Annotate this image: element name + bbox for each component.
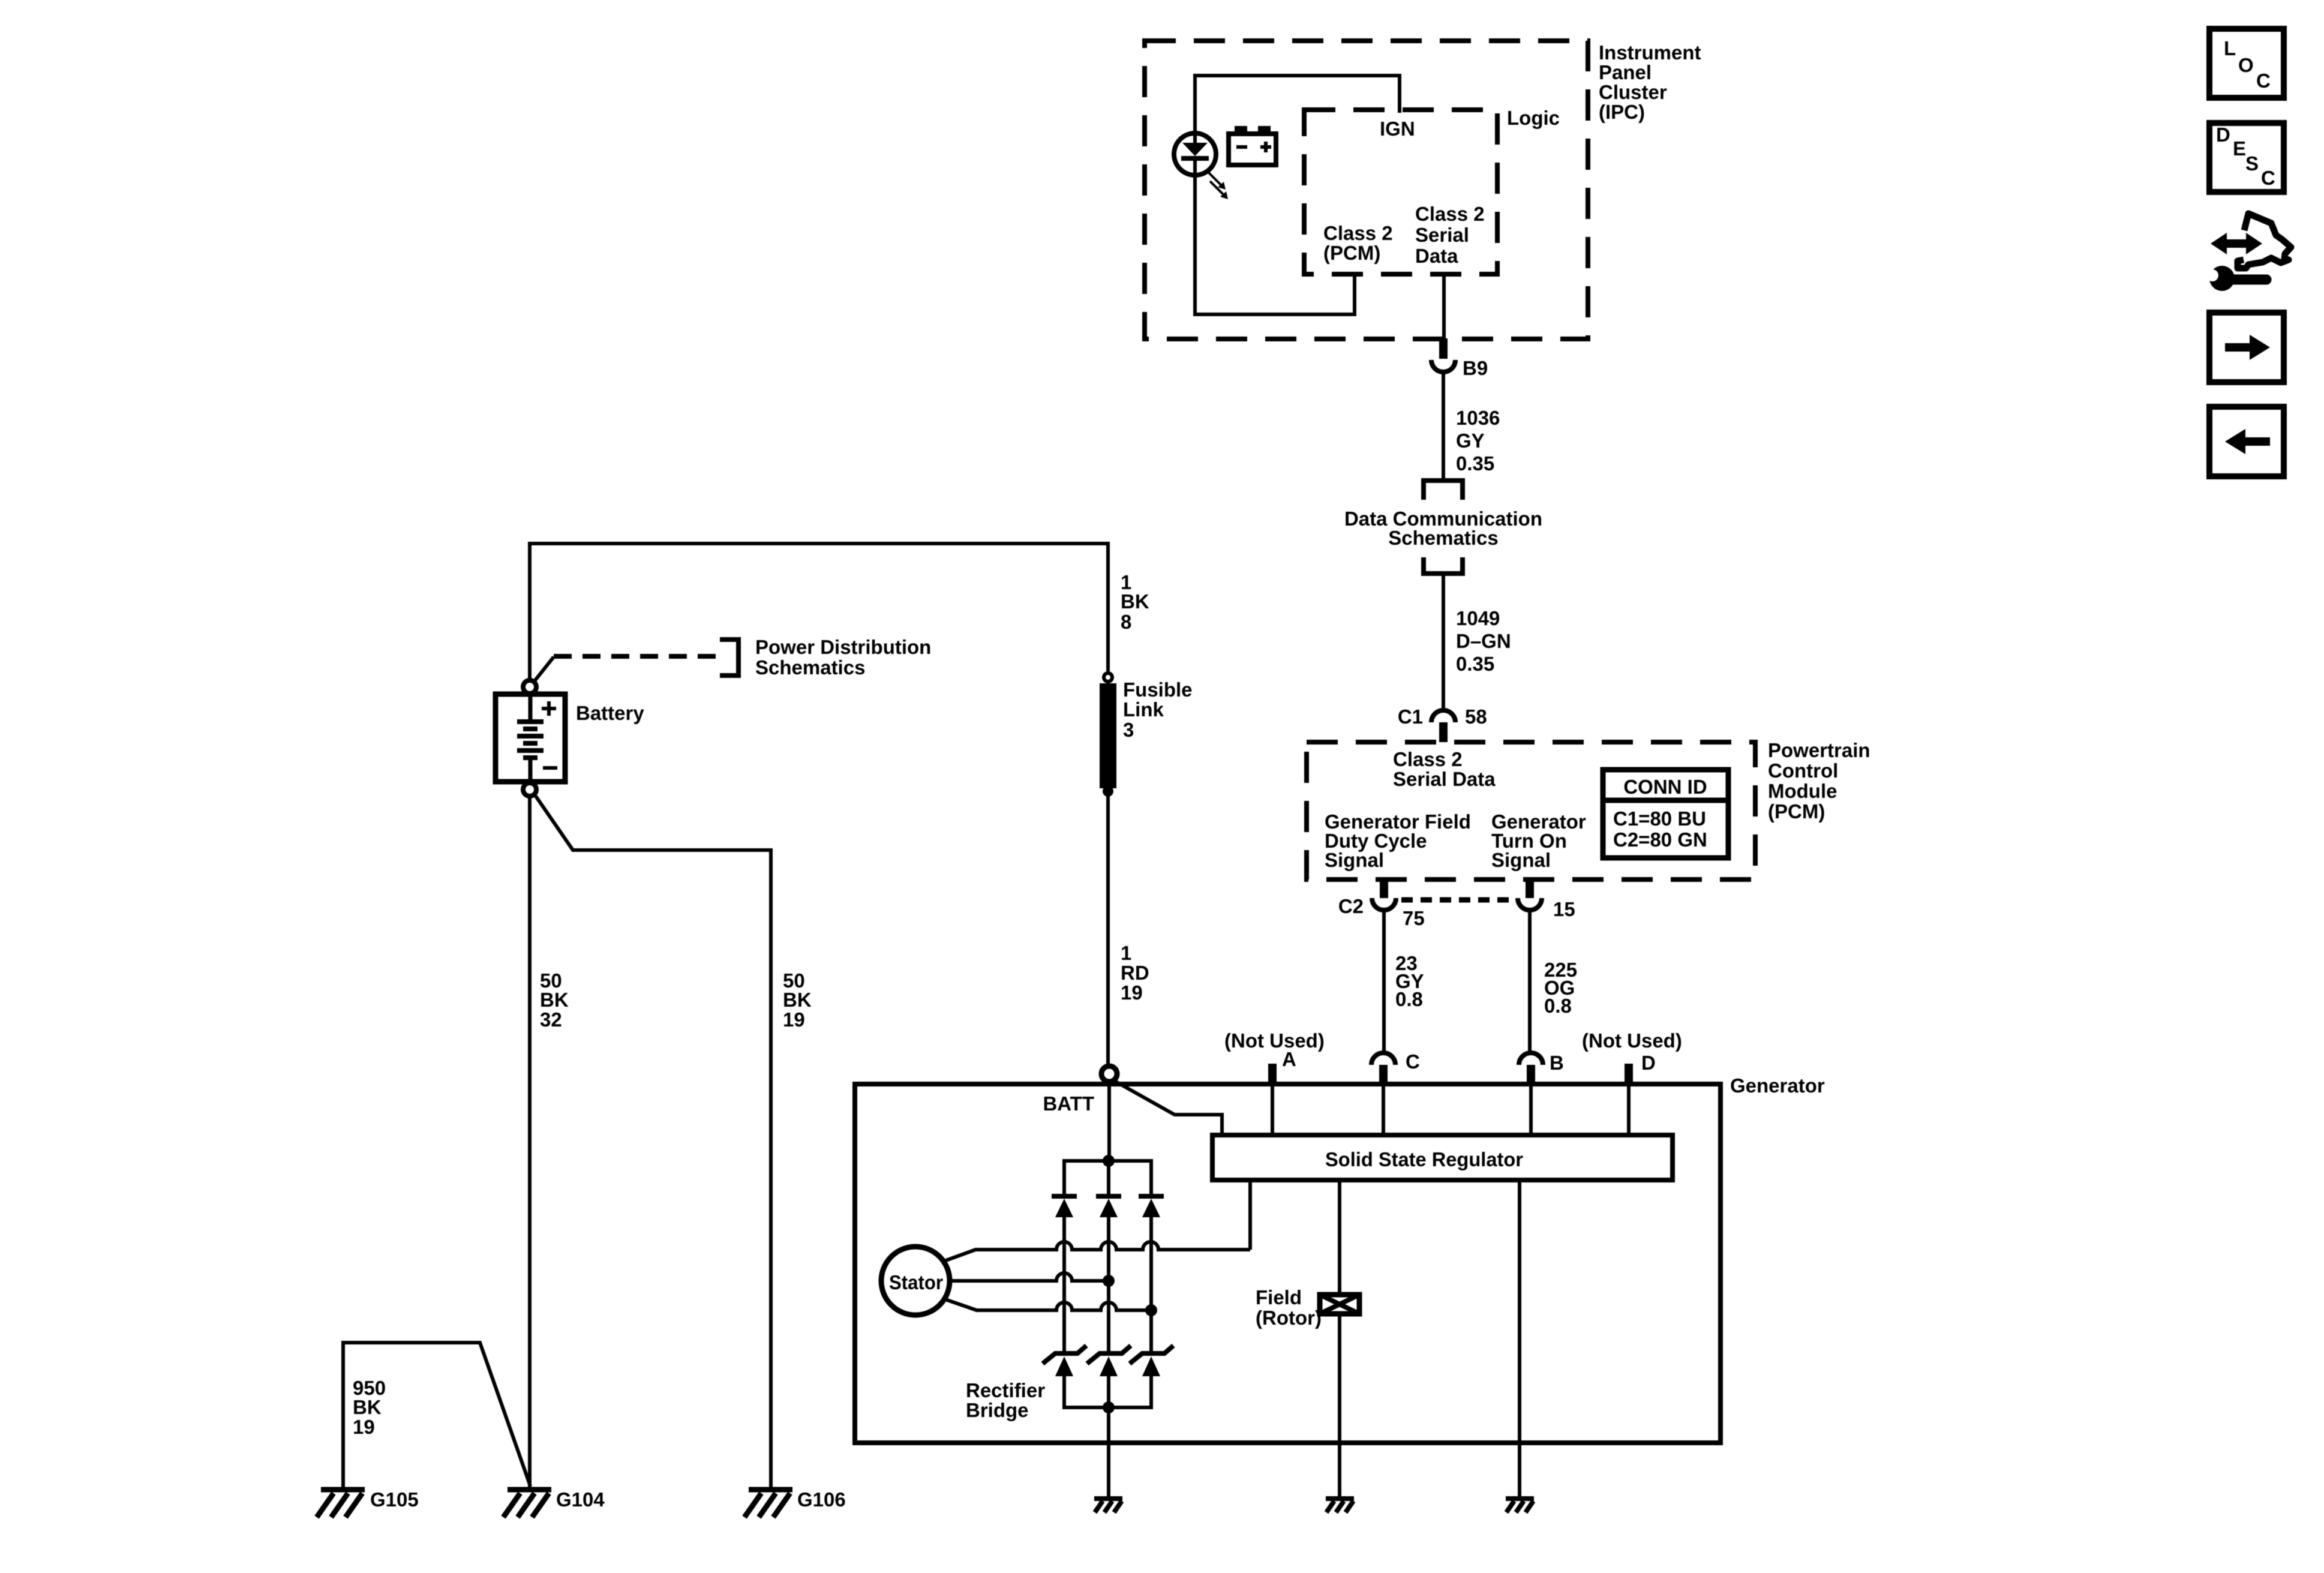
svg-text:0.8: 0.8 [1544,995,1572,1017]
label 225 OG 0.8 [1544,959,1577,1017]
module box PCM (Powertrain Control Module) [1307,742,1755,879]
ground G105 [317,1490,365,1517]
icon data link connector (outline) [2238,214,2291,268]
svg-text:0.35: 0.35 [1456,653,1494,675]
svg-text:0.8: 0.8 [1395,988,1423,1010]
svg-text:Fusible: Fusible [1123,679,1193,701]
svg-text:Generator: Generator [1730,1074,1825,1097]
svg-text:D: D [2216,124,2230,146]
svg-text:C: C [2256,70,2271,92]
svg-text:Class 2: Class 2 [1415,203,1485,225]
ground (rectifier bridge) [1094,1499,1122,1512]
label Instrument Panel Cluster (IPC) [1599,41,1701,123]
connector socket arc (terminal 15) [1518,898,1542,910]
svg-text:C2=80 GN: C2=80 GN [1613,828,1707,851]
svg-text:BK: BK [540,989,569,1011]
svg-text:(IPC): (IPC) [1599,101,1645,123]
svg-text:8: 8 [1121,611,1131,633]
wire field to ground [1338,1314,1341,1499]
ground G104 [503,1490,551,1517]
wire regulator to stator phase 1 [1248,1180,1252,1250]
connector pin stub (terminal 15) [1526,879,1534,898]
LED emission arrows [1208,172,1223,194]
svg-text:Field: Field [1256,1286,1302,1308]
svg-text:C1=80 BU: C1=80 BU [1613,807,1706,830]
label 950 BK 19 [353,1377,386,1438]
svg-text:Class 2: Class 2 [1323,222,1393,244]
svg-text:Schematics: Schematics [1388,527,1498,549]
svg-text:(PCM): (PCM) [1768,800,1825,822]
CONN ID table [1603,770,1728,858]
svg-text:G105: G105 [370,1488,419,1511]
svg-text:75: 75 [1403,907,1425,929]
connector C2 pin stub (terminal 75) [1380,879,1388,898]
label 50 BK 32 [540,969,569,1031]
svg-text:E: E [2233,137,2246,160]
wire regulator to field rotor [1338,1180,1341,1295]
avalanche diode D4 (column 1) [1043,1346,1086,1364]
icon DESC [2209,123,2284,192]
component box Generator [855,1084,1721,1443]
wire circuit 23 GY 0.8 [1382,912,1386,1051]
svg-text:Serial Data: Serial Data [1393,768,1496,790]
svg-text:RD: RD [1121,962,1149,984]
svg-text:1049: 1049 [1456,607,1500,629]
svg-text:O: O [2238,54,2254,76]
label Generator Field Duty Cycle Signal [1325,810,1471,871]
svg-text:15: 15 [1553,898,1575,920]
svg-text:Powertrain: Powertrain [1768,739,1870,761]
svg-text:C: C [2261,167,2275,189]
svg-text:19: 19 [353,1416,375,1438]
svg-text:Instrument: Instrument [1599,41,1701,64]
svg-text:Signal: Signal [1325,849,1384,871]
ground (field rotor) [1326,1499,1354,1512]
label Rectifier Bridge [966,1379,1045,1421]
svg-text:G106: G106 [797,1488,846,1511]
svg-text:(Not Used): (Not Used) [1224,1029,1325,1052]
label Generator Turn On Signal [1491,810,1586,871]
label Class 2 (PCM) [1323,222,1393,264]
label 1 RD 19 [1121,942,1149,1004]
wire bridge to ground [1107,1407,1110,1499]
junction bridge bottom [1103,1401,1115,1413]
wire diode column 2 upper [1107,1161,1110,1196]
wire BATT to regulator [1116,1082,1222,1135]
wire class 2 serial data pin down to B9 [1442,274,1446,338]
battery [496,694,565,782]
svg-text:0.35: 0.35 [1456,452,1494,475]
svg-text:BATT: BATT [1043,1092,1094,1115]
ground (regulator) [1506,1499,1534,1512]
svg-text:1036: 1036 [1456,407,1500,429]
svg-text:IGN: IGN [1380,118,1415,140]
svg-text:Schematics: Schematics [755,656,865,679]
svg-text:(Not Used): (Not Used) [1582,1029,1682,1052]
diode D2 upper (column 2) [1096,1196,1121,1217]
svg-text:L: L [2224,37,2236,59]
svg-text:A: A [1282,1048,1296,1070]
svg-text:Battery: Battery [576,702,644,724]
icon arrow back (left) [2209,407,2284,476]
junction BATT / bridge top [1103,1155,1115,1167]
svg-text:CONN ID: CONN ID [1623,776,1707,798]
svg-text:BK: BK [783,989,812,1011]
wire 1049 D-GN 0.35 [1442,576,1445,708]
rectifier bridge top bracket [1064,1161,1151,1196]
label 1 BK 8 [1121,571,1149,633]
wire pin B internal [1529,1084,1533,1135]
svg-text:Rectifier: Rectifier [966,1379,1045,1401]
svg-text:B9: B9 [1463,357,1488,379]
svg-text:3: 3 [1123,719,1134,741]
battery telltale icon [1229,126,1276,165]
connector B9 socket arc [1431,360,1455,372]
wire 1 RD 19 [1106,791,1110,1064]
svg-text:Logic: Logic [1507,107,1560,129]
wire lower diode column 1 [1062,1376,1066,1407]
generator pin C stub [1379,1065,1388,1084]
wire pin D internal [1627,1084,1631,1135]
label 1036 GY 0.35 [1456,407,1500,475]
off-page connector bottom [1424,557,1463,574]
svg-text:Stator: Stator [889,1271,943,1293]
wire stator phase 2 (middle) [950,1273,1109,1281]
label Field (Rotor) [1256,1286,1322,1329]
svg-text:58: 58 [1465,706,1487,728]
dashed wire power distribution [554,654,719,659]
wire diode column 2 [1107,1217,1110,1354]
wire 50 BK 32 [528,798,532,1490]
wire circuit 225 OG 0.8 [1528,912,1532,1051]
svg-text:Class 2: Class 2 [1393,748,1463,770]
connector B9 pin stub [1439,338,1448,359]
svg-text:BK: BK [353,1396,382,1418]
wire pin A internal [1271,1084,1274,1135]
wire stator phase 1 (top) [944,1242,1250,1261]
avalanche diode D6 (column 3) [1130,1346,1173,1364]
fusible link 3 [1100,673,1116,797]
junction stator phase 2 / diode column 2 [1103,1275,1115,1287]
connector C1 pin stub [1439,722,1448,742]
svg-text:Data: Data [1415,245,1458,267]
diode D1 upper (column 1) [1052,1196,1077,1217]
label Fusible Link 3 [1123,679,1193,741]
wire stator phase 3 (bottom) [945,1299,1151,1310]
connector C2 socket arc (terminal 75) [1372,898,1396,910]
logic box (dashed) [1304,110,1497,274]
svg-text:Power Distribution: Power Distribution [755,636,931,658]
wire regulator to ground [1518,1180,1521,1499]
wire battery positive feed (top loop) [530,544,1108,680]
svg-text:C2: C2 [1338,895,1364,917]
svg-text:Module: Module [1768,780,1837,802]
wire lower diode column 3 [1149,1376,1153,1407]
icon data link connector (wrench) [2205,266,2266,291]
label 1049 D-GN 0.35 [1456,607,1511,675]
svg-text:Control: Control [1768,760,1838,782]
label Class 2 Serial Data (PCM pin) [1393,748,1496,790]
svg-text:19: 19 [783,1008,805,1031]
svg-text:(Rotor): (Rotor) [1256,1307,1322,1329]
indicator lamp LED (charge telltale) [1174,133,1216,175]
svg-text:Serial: Serial [1415,224,1469,246]
ground G106 [744,1490,792,1517]
label 23 GY 0.8 [1395,952,1424,1010]
component box Solid State Regulator [1212,1135,1673,1180]
label Powertrain Control Module (PCM) [1768,739,1870,822]
svg-text:Bridge: Bridge [966,1399,1029,1421]
off-page connector top (Data Communication Schematics) [1424,481,1463,500]
battery B+ terminal circle [523,680,536,694]
svg-text:Solid State Regulator: Solid State Regulator [1325,1148,1523,1170]
wire diode column 3 [1149,1217,1153,1354]
svg-text:32: 32 [540,1008,562,1031]
svg-text:19: 19 [1121,981,1143,1004]
svg-text:C1: C1 [1398,706,1423,728]
svg-text:1: 1 [1121,942,1131,964]
generator pin B connector arc [1519,1053,1543,1065]
wire 1036 GY 0.35 [1442,374,1445,481]
svg-text:Signal: Signal [1491,849,1551,871]
svg-text:D–GN: D–GN [1456,630,1511,652]
icon LOC [2209,29,2284,98]
wire 50 BK 19 branch [536,796,771,1490]
rectifier bridge bottom bracket [1064,1376,1151,1407]
off-page bracket power distribution [720,640,738,676]
wire BATT down to rectifier bridge [1107,1084,1111,1161]
wire class 2 (PCM) pin to LED bottom [1195,160,1355,314]
wire to power distribution (diagonal) [533,657,554,683]
generator pin C connector arc [1371,1053,1395,1065]
svg-text:S: S [2245,152,2259,175]
label Data Communication Schematics [1344,508,1542,549]
svg-text:D: D [1641,1052,1656,1074]
svg-text:GY: GY [1456,430,1485,452]
module box IPC (Instrument Panel Cluster) [1145,41,1588,339]
battery B- terminal circle [523,783,536,796]
icon arrow next (right) [2209,313,2284,382]
svg-text:B: B [1550,1052,1564,1074]
svg-text:Link: Link [1123,698,1164,721]
wire lower diode column 2 [1107,1376,1110,1407]
svg-text:Panel: Panel [1599,61,1652,83]
connector C1 socket arc [1431,710,1455,722]
icon data link connector (double arrow) [2211,233,2262,254]
svg-text:BK: BK [1121,590,1149,613]
label Power Distribution Schematics [755,636,931,679]
svg-text:(PCM): (PCM) [1323,242,1380,264]
generator pin A stub [1268,1064,1277,1084]
generator pin D stub [1625,1064,1633,1084]
stator winding circle [881,1247,950,1315]
label (Not Used) pin A [1224,1029,1325,1070]
wire 950 BK 19 [343,1343,530,1490]
wire diode column 1 [1062,1217,1066,1354]
diode D3 upper (column 3) [1139,1196,1164,1217]
avalanche diode D5 (column 2) [1087,1346,1131,1364]
junction stator phase 3 / diode column 3 [1145,1304,1157,1316]
wire IGN feed (LED top to IGN pin) [1195,76,1400,144]
generator pin B stub [1527,1065,1535,1084]
terminal circle BATT [1101,1066,1117,1082]
svg-text:Cluster: Cluster [1599,81,1667,103]
wire pin C internal [1382,1084,1385,1135]
field rotor coil symbol [1320,1295,1359,1314]
svg-text:G104: G104 [556,1488,605,1511]
dashed connector line C2 [1401,897,1515,903]
label Class 2 Serial Data (logic pin) [1415,203,1485,267]
svg-text:C: C [1406,1050,1420,1073]
label 50 BK 19 [783,969,812,1031]
label (Not Used) pin D [1582,1029,1682,1074]
